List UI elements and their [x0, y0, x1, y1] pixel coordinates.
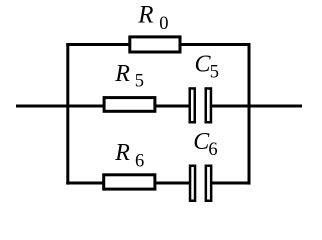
- capacitor C6 plate right: [206, 166, 211, 201]
- capacitor C6 plate left: [190, 166, 195, 201]
- wire middle branch left segment: [69, 105, 104, 108]
- wire top branch right segment: [180, 43, 251, 46]
- resistor R0: [130, 37, 180, 52]
- label R6: [114, 140, 144, 172]
- svg-text:6: 6: [208, 140, 217, 160]
- wire middle branch right of C5: [211, 105, 249, 108]
- resistor R5: [104, 98, 155, 112]
- svg-text:6: 6: [135, 152, 144, 172]
- wire bottom branch between R6 and C6: [155, 182, 191, 185]
- wire top branch left segment: [66, 43, 130, 46]
- wire right lead: [248, 105, 303, 108]
- svg-text:0: 0: [159, 14, 168, 34]
- svg-text:5: 5: [135, 71, 144, 91]
- svg-text:R: R: [137, 2, 153, 29]
- capacitor C5 plate right: [206, 88, 211, 122]
- capacitor C5 plate left: [190, 88, 195, 122]
- wire bottom branch left segment: [66, 182, 104, 185]
- label R0: [137, 2, 168, 34]
- resistor R6: [104, 175, 155, 189]
- wire left lead: [16, 105, 70, 108]
- label C6: [193, 129, 217, 160]
- wire middle branch between R5 and C5: [155, 105, 191, 108]
- wire left bus vertical: [66, 43, 69, 185]
- wire right bus vertical: [248, 43, 251, 185]
- label R5: [114, 61, 144, 91]
- wire bottom branch right of C6: [211, 182, 251, 185]
- svg-text:5: 5: [210, 63, 219, 83]
- svg-text:R: R: [114, 61, 130, 87]
- label C5: [195, 51, 219, 82]
- svg-text:R: R: [114, 140, 130, 166]
